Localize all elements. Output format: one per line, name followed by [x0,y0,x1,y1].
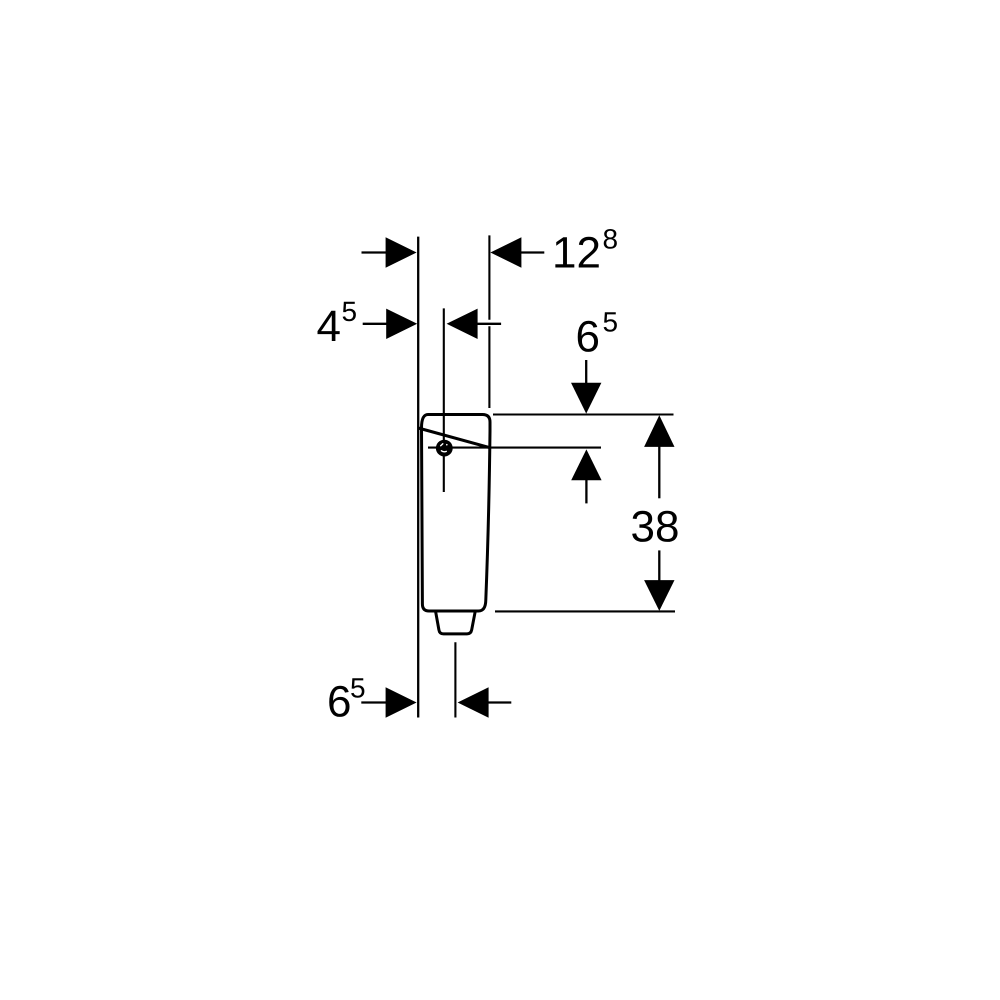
dim 4^5 arrow right-pointing [386,309,417,339]
dim 4^5 tail left [363,323,390,325]
dim 12^8 tail right [517,251,544,253]
dim 6^5 bottom arrow right-pointing [386,687,417,717]
dim 6^5 upper stem [585,360,587,385]
dim 12^8 tail left [362,251,391,253]
dim 12^8 arrow left-pointing [490,237,521,267]
screw [436,440,453,457]
cistern outline [422,415,491,612]
inner dim arrow up-pointing (lever height) [571,449,601,480]
extension line through screw (x=443.8) [443,308,445,492]
cistern lid seam diagonal [418,428,489,448]
dim 38 arrow up-pointing [644,415,674,447]
svg-text:5: 5 [603,306,619,337]
svg-text:6: 6 [576,312,600,361]
flush outlet [436,612,476,634]
top extension line (tank top level) [493,413,674,415]
line through screw (lever level) [428,447,601,449]
svg-text:5: 5 [342,296,358,327]
dim 38 lower stem [658,550,660,581]
dim 4^5 tail right [474,323,501,325]
svg-text:8: 8 [603,223,619,254]
svg-text:6: 6 [327,678,351,727]
wall line [417,237,419,718]
dim 6^5 upper arrow down-pointing [571,383,601,414]
dim 6^5 bottom arrow left-pointing [458,687,489,717]
dim 38 upper stem [658,446,660,498]
dim 4^5 arrow left-pointing [447,309,478,339]
dim 6^5 bottom tail right [485,701,511,703]
svg-text:4: 4 [317,302,341,351]
svg-text:5: 5 [350,672,366,703]
extension line right of tank (x=489) upper segment [488,235,490,319]
svg-text:12: 12 [552,229,601,278]
extension line right of tank (x=489) lower segment [488,326,490,408]
centerline below outlet [454,642,456,717]
dim 12^8 arrow right-pointing [386,237,417,267]
svg-text:38: 38 [631,503,680,552]
inner dim stem [585,479,587,503]
dim 6^5 bottom tail left [361,701,389,703]
bottom extension line (tank bottom level) [495,610,675,612]
dim 38 arrow down-pointing [644,580,674,611]
